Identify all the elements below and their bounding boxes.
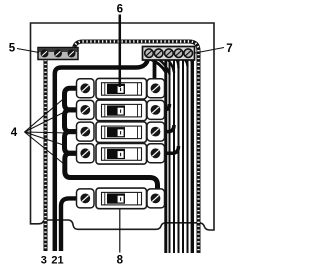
harness wire A	[164, 60, 167, 253]
fuse row 4	[77, 144, 165, 165]
callout 4 leader fan	[25, 98, 69, 167]
harness wire F	[187, 60, 189, 253]
feed wire strip7 to row1 right terminal	[153, 58, 157, 82]
svg-text:3: 3	[41, 255, 47, 267]
svg-text:1: 1	[58, 255, 64, 267]
jumper loop rows1-2	[65, 88, 81, 110]
row4 right elbow	[159, 146, 179, 153]
row2 right elbow	[159, 104, 170, 110]
fuse row 5	[77, 188, 165, 209]
wire 1 (row5 left terminal to bottom exit)	[61, 198, 80, 251]
terminal strip 7	[143, 47, 195, 61]
harness wire E	[182, 60, 184, 253]
fuse row 3	[77, 122, 165, 143]
callout 5 leader	[17, 49, 39, 53]
callout 8 leader	[119, 210, 121, 253]
jumper loop rows2-3	[65, 110, 81, 132]
jumper loop rows3-4	[65, 132, 81, 154]
callout 6 leader	[119, 15, 122, 88]
svg-text:7: 7	[226, 43, 232, 55]
svg-text:5: 5	[9, 43, 16, 55]
fuse row 1	[77, 78, 165, 99]
svg-text:8: 8	[117, 255, 124, 267]
svg-text:2: 2	[51, 255, 57, 267]
row3 right elbow	[159, 125, 174, 132]
strip7 fan wires	[150, 58, 192, 74]
fuse row 2	[77, 100, 165, 121]
svg-text:6: 6	[117, 4, 123, 16]
callout 7 leader	[195, 48, 224, 54]
svg-text:4: 4	[11, 127, 18, 139]
harness wire D	[178, 60, 180, 253]
harness wire B	[169, 60, 171, 253]
wire 2 feed bus (bottom exit up to terminal strip 7)	[55, 54, 149, 251]
wire W-brown braided loop (strip 5 to bottom right exit)	[74, 42, 199, 254]
terminal strip 5	[38, 48, 78, 60]
harness wire G	[191, 60, 194, 253]
jumper row4 to row5 right terminal	[65, 153, 158, 193]
wire 3 braided (strip 5 down to exit)	[44, 56, 48, 251]
harness wire C	[173, 60, 175, 253]
fuse box housing outline	[31, 23, 215, 230]
